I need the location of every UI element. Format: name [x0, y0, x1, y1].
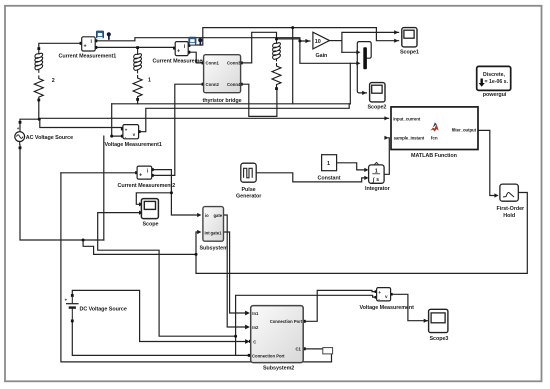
- svg-text:Integrator: Integrator: [365, 186, 391, 192]
- Scope mid: [141, 199, 158, 228]
- Voltage Measurement bottom block: [360, 288, 415, 311]
- wire bus riser to mux in2: [349, 63, 351, 104]
- wire VM1 minus branch down: [103, 136, 105, 240]
- wire VMbot out to Scope3: [391, 294, 428, 320]
- DC Voltage Source battery: [66, 297, 79, 320]
- small block on C1 wire: [323, 348, 333, 354]
- Current Measurement2 mid block: [118, 166, 176, 189]
- svg-text:gate1: gate1: [211, 231, 223, 236]
- wire CM-top2 minus to Conn1: [190, 52, 201, 63]
- Subsystem2 block: [248, 306, 306, 372]
- svg-text:Gain: Gain: [316, 53, 328, 59]
- svg-text:Connection Port: Connection Port: [270, 319, 303, 324]
- svg-text:+: +: [177, 48, 180, 54]
- svg-text:In1: In1: [252, 311, 259, 316]
- wire CM1 i-output to Gain (long top horizontal): [95, 38, 310, 41]
- svg-text:Subsystem2: Subsystem2: [263, 365, 294, 371]
- svg-text:+: +: [378, 291, 381, 296]
- wire branch3 top tap to gain node: [277, 38, 300, 40]
- wire Conn3 to branch3 top: [243, 32, 277, 63]
- svg-text:v: v: [133, 132, 136, 137]
- wire Constant to integrator in1: [337, 163, 366, 170]
- wire VMbot feed vertical: [236, 295, 377, 336]
- wire ConnectionPort right out up to VMbot plus: [306, 290, 377, 321]
- svg-text:Hold: Hold: [503, 213, 515, 219]
- svg-text:Current Measurement1: Current Measurement1: [59, 54, 117, 60]
- CM1 log badge arrow: [107, 32, 111, 40]
- svg-text:Conn3: Conn3: [227, 61, 241, 66]
- svg-text:Conn2: Conn2: [206, 82, 220, 87]
- wire subsystem gate out2 to In1: [224, 232, 247, 313]
- svg-text:Discrete,: Discrete,: [483, 72, 505, 78]
- svg-text:+: +: [65, 298, 68, 303]
- wire CM1 input from branch1 top: [39, 43, 80, 48]
- wire subsystem gate out1 to In2: [224, 215, 247, 327]
- svg-text:Scope: Scope: [143, 221, 159, 227]
- svg-text:Voltage Measurement: Voltage Measurement: [360, 305, 415, 311]
- svg-text:In2: In2: [252, 325, 259, 330]
- svg-text:+: +: [139, 172, 142, 178]
- svg-text:Conn4: Conn4: [227, 82, 241, 87]
- wire bus2 from VM1 riser: [139, 104, 350, 132]
- CM1 scope badge: [96, 31, 103, 38]
- Scope2: [368, 83, 387, 111]
- branch1 RL (inductor + resistor value 2): [34, 50, 43, 100]
- Scope1: [400, 28, 419, 56]
- Voltage Measurement1 block: [105, 125, 162, 149]
- wire left long vertical x61: [61, 173, 332, 362]
- svg-text:AC Voltage Source: AC Voltage Source: [26, 135, 73, 141]
- wire gain output tee: [330, 40, 342, 42]
- wire AC minus down and right: [20, 145, 104, 240]
- svg-text:MATLAB Function: MATLAB Function: [411, 153, 457, 159]
- wire FOH loop to int: [196, 193, 527, 274]
- svg-text:thyristor bridge: thyristor bridge: [203, 98, 242, 104]
- svg-text:∫: ∫: [372, 177, 375, 183]
- svg-text:Subsystem: Subsystem: [200, 245, 229, 251]
- wire subsystem int input riser: [196, 232, 199, 254]
- svg-text:= 1e-06 s.: = 1e-06 s.: [485, 79, 509, 85]
- wire gain out down to mux in1: [342, 51, 358, 53]
- svg-text:1: 1: [327, 161, 330, 167]
- MATLAB Function block: [391, 107, 478, 159]
- wire MATLAB filter_output to FOH: [478, 130, 497, 195]
- svg-text:10: 10: [315, 39, 321, 45]
- Pulse Generator block: [236, 163, 262, 199]
- CM2top scope badge: [189, 37, 196, 44]
- wire gain node bypass to mux in2: [300, 41, 358, 63]
- wire mux output loop to Scope2: [357, 42, 371, 93]
- svg-text:Voltage Measurement1: Voltage Measurement1: [105, 142, 162, 148]
- Current Measurement1 block: [59, 37, 117, 60]
- svg-text:C1: C1: [296, 347, 302, 352]
- wire DC plus to C input: [72, 290, 246, 341]
- svg-text:filter_output: filter_output: [452, 128, 477, 133]
- wire topline CM-top2 i to Scope1 lower input: [190, 28, 398, 45]
- svg-text:input_current: input_current: [393, 116, 421, 121]
- wire dot branch down right: [83, 240, 196, 254]
- svg-text:First-Order: First-Order: [497, 206, 526, 212]
- wire CM2mid plus from left vertical: [61, 172, 136, 174]
- svg-text:sample_instant: sample_instant: [394, 136, 425, 141]
- wire Integrator out to sample_instant: [384, 138, 389, 175]
- svg-text:Scope2: Scope2: [368, 104, 387, 110]
- wire bus1 horizontal: [112, 103, 351, 105]
- wire AC node long line to MATLAB input_current: [40, 117, 389, 120]
- wire Conn2 from CM2mid minus riser: [152, 84, 202, 175]
- svg-text:2: 2: [52, 78, 55, 84]
- svg-text:Scope1: Scope1: [400, 50, 419, 56]
- arrows group: [139, 30, 499, 344]
- svg-text:1: 1: [148, 78, 151, 84]
- branch3 RL: [272, 40, 281, 88]
- wire AC plus node to VM1 plus: [20, 100, 39, 127]
- wire PulseGenerator to integrator in2: [256, 173, 366, 182]
- First-Order Hold block: [497, 184, 526, 219]
- wire vertical from topline dot down to bus: [292, 28, 294, 104]
- MATLAB logo: [430, 124, 438, 131]
- wire VM1 minus from bus riser: [112, 104, 123, 136]
- svg-text:s: s: [376, 177, 379, 183]
- wire CM2mid i out down: [152, 170, 172, 193]
- svg-text:Pulse: Pulse: [242, 187, 256, 193]
- svg-text:gate: gate: [214, 213, 223, 218]
- wire i net to Scope: [136, 193, 171, 205]
- powergui block: [477, 66, 511, 98]
- Constant block: [318, 155, 341, 182]
- Integrator block: [365, 162, 391, 191]
- Current Measurement2 top block: [153, 42, 211, 65]
- wire VMbot lower continue down: [235, 336, 237, 355]
- svg-text:powergui: powergui: [483, 92, 507, 98]
- wire gain out up to Scope1 upper input: [342, 32, 399, 52]
- Mux: [363, 47, 367, 69]
- Scope3: [429, 309, 449, 342]
- wire C1 loop: [306, 349, 332, 362]
- wire i net to Subsystem io: [171, 193, 199, 215]
- wire branch2 bottom to bus: [137, 99, 139, 103]
- wire Conn4 U-loop to branch3 bottom: [243, 84, 277, 116]
- svg-text:Current Measurement2: Current Measurement2: [118, 183, 176, 189]
- svg-text:io: io: [205, 213, 209, 218]
- svg-text:C: C: [253, 339, 256, 344]
- svg-text:+: +: [84, 44, 87, 50]
- AC Voltage Source: [15, 126, 73, 145]
- thyristor bridge block: [202, 55, 243, 104]
- Subsystem block: [200, 207, 229, 252]
- svg-text:+: +: [17, 126, 20, 131]
- svg-text:Connection Port: Connection Port: [252, 353, 285, 358]
- wire CM1 minus to CM2plus: [95, 46, 173, 48]
- svg-text:DC Voltage Source: DC Voltage Source: [80, 306, 127, 312]
- svg-text:Generator: Generator: [236, 193, 262, 199]
- svg-text:Scope3: Scope3: [430, 336, 449, 342]
- wire AC node down jog to VM1: [40, 119, 123, 127]
- svg-text:+: +: [125, 128, 128, 133]
- svg-text:Constant: Constant: [318, 175, 341, 181]
- wire DC minus to ConnectionPort bottom: [72, 321, 247, 356]
- CM2top log badge arrow: [198, 38, 202, 46]
- branch2 RL (inductor + resistor value 1): [133, 49, 142, 100]
- svg-text:Conn1: Conn1: [206, 61, 220, 66]
- wire i net left branch down: [98, 213, 236, 337]
- svg-text:int: int: [205, 231, 211, 236]
- svg-text:fcn: fcn: [431, 136, 438, 141]
- svg-text:v: v: [385, 294, 388, 299]
- Gain block: [313, 32, 330, 59]
